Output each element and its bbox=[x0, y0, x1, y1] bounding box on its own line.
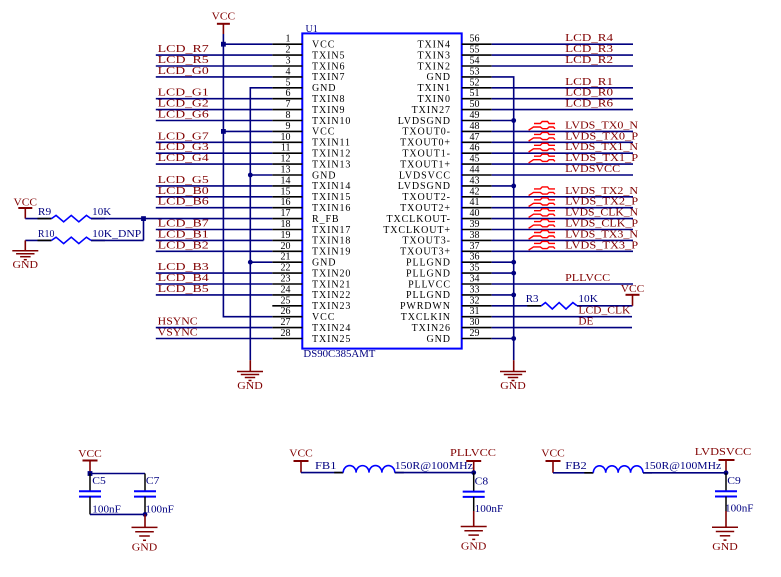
pin 21 GND bbox=[272, 252, 336, 269]
pin 46 TXOUT1- bbox=[402, 143, 491, 160]
pin 14 TXIN14 bbox=[272, 175, 351, 192]
svg-text:LVDS_TX3_P: LVDS_TX3_P bbox=[565, 239, 638, 251]
svg-text:TXIN9: TXIN9 bbox=[312, 105, 345, 116]
svg-text:TXIN5: TXIN5 bbox=[312, 50, 345, 61]
wire net LCD_G3 pin 11 bbox=[156, 152, 272, 154]
wire net LCD_R0 pin 51 bbox=[492, 98, 633, 100]
svg-text:R10: R10 bbox=[38, 228, 55, 240]
svg-text:22: 22 bbox=[281, 263, 291, 274]
svg-text:9: 9 bbox=[286, 121, 291, 132]
svg-text:TXIN22: TXIN22 bbox=[312, 290, 351, 301]
node C9 junction bbox=[724, 470, 729, 475]
svg-text:R3: R3 bbox=[526, 293, 539, 305]
node bus pin33 junction bbox=[511, 293, 516, 298]
inductor FB2 bbox=[584, 466, 652, 473]
svg-text:LCD_B2: LCD_B2 bbox=[158, 239, 209, 251]
svg-text:VCC: VCC bbox=[289, 448, 313, 460]
svg-text:PLLGND: PLLGND bbox=[406, 258, 451, 269]
pin 33 PLLGND bbox=[406, 284, 492, 301]
pin 35 PLLGND bbox=[406, 263, 492, 280]
svg-text:TXCLKOUT+: TXCLKOUT+ bbox=[383, 225, 451, 236]
svg-text:TXOUT1+: TXOUT1+ bbox=[400, 159, 451, 170]
wire net LCD_G1 pin 6 bbox=[156, 98, 272, 100]
svg-text:GND: GND bbox=[461, 540, 487, 552]
svg-text:10K_DNP: 10K_DNP bbox=[92, 228, 141, 240]
resistor R9 bbox=[38, 215, 106, 221]
wire VCC to FB2 bbox=[553, 472, 593, 474]
differential pair directive LVDS_TX1_P bbox=[529, 154, 555, 163]
svg-text:PLLGND: PLLGND bbox=[406, 268, 451, 279]
wire net LCD_R7 pin 2 bbox=[156, 54, 272, 56]
svg-text:U1: U1 bbox=[306, 23, 318, 35]
wire net LCD_B0 pin 15 bbox=[156, 196, 272, 198]
svg-text:TXIN4: TXIN4 bbox=[418, 40, 451, 51]
node bus pin35 junction bbox=[511, 271, 516, 276]
pin 16 TXIN16 bbox=[272, 197, 351, 214]
svg-text:TXIN11: TXIN11 bbox=[312, 138, 351, 149]
svg-text:GND: GND bbox=[427, 72, 451, 83]
svg-text:GND: GND bbox=[500, 380, 526, 392]
capacitor C5 bottom lead bbox=[89, 497, 91, 515]
wire pin32 to R3 bbox=[492, 305, 542, 307]
svg-text:TXIN13: TXIN13 bbox=[312, 159, 351, 170]
svg-text:33: 33 bbox=[470, 284, 480, 295]
differential pair directive LVDS_TX3_P bbox=[529, 241, 555, 250]
svg-text:15: 15 bbox=[281, 186, 291, 197]
svg-text:LCD_G6: LCD_G6 bbox=[158, 109, 210, 121]
svg-text:GND: GND bbox=[312, 258, 336, 269]
svg-text:VCC: VCC bbox=[78, 448, 102, 460]
pin 52 TXIN1 bbox=[418, 77, 492, 94]
svg-text:13: 13 bbox=[281, 165, 291, 176]
node GND bus pin21 junction bbox=[248, 260, 253, 265]
svg-text:150R@100MHz: 150R@100MHz bbox=[644, 460, 721, 472]
svg-text:GND: GND bbox=[312, 170, 336, 181]
capacitor C9 top lead bbox=[725, 473, 727, 491]
capacitor C8 bbox=[463, 492, 485, 497]
svg-text:TXIN3: TXIN3 bbox=[418, 50, 451, 61]
svg-text:25: 25 bbox=[281, 295, 291, 306]
node bus pin49 junction bbox=[511, 118, 516, 123]
wire net LCD_CLK pin 31 bbox=[492, 316, 632, 318]
power VCC at R3 bbox=[621, 283, 645, 306]
svg-text:30: 30 bbox=[470, 317, 480, 328]
svg-text:TXIN26: TXIN26 bbox=[412, 323, 451, 334]
svg-text:100nF: 100nF bbox=[725, 503, 754, 515]
wire junction down to R10 bbox=[143, 219, 145, 241]
wire pin21 GND bbox=[250, 261, 272, 263]
svg-text:21: 21 bbox=[281, 252, 291, 263]
pin 56 TXIN4 bbox=[418, 34, 492, 51]
pin 38 TXOUT3- bbox=[402, 230, 491, 247]
wire pin36 to bus bbox=[492, 261, 514, 263]
svg-text:4: 4 bbox=[286, 66, 291, 77]
svg-text:39: 39 bbox=[470, 219, 480, 230]
svg-text:54: 54 bbox=[470, 56, 480, 67]
wire net LVDS_TX0_N pin 48 bbox=[492, 130, 633, 132]
svg-text:R_FB: R_FB bbox=[312, 214, 340, 225]
power VCC at FB1 bbox=[289, 448, 313, 473]
svg-text:GND: GND bbox=[13, 259, 39, 271]
pin 6 TXIN8 bbox=[272, 88, 345, 105]
wire net LVDS_TX1_N pin 46 bbox=[492, 152, 633, 154]
svg-text:10K: 10K bbox=[578, 293, 598, 305]
resistor R10 wire left bbox=[25, 239, 51, 241]
power VCC at C5 bbox=[78, 448, 102, 474]
pin 43 LVDSGND bbox=[398, 175, 492, 192]
wire net LVDS_TX2_N pin 42 bbox=[492, 196, 633, 198]
differential pair directive LVDS_TX0_N bbox=[529, 122, 555, 131]
svg-text:GND: GND bbox=[132, 541, 158, 553]
capacitor C7 bbox=[134, 491, 156, 496]
pin 3 TXIN6 bbox=[272, 56, 345, 73]
wire net PLLVCC pin 34 bbox=[492, 283, 633, 285]
pin 48 TXOUT0- bbox=[402, 121, 491, 138]
pin 23 TXIN21 bbox=[272, 274, 351, 291]
differential pair directive LVDS_TX3_N bbox=[529, 231, 555, 240]
pin 42 TXOUT2- bbox=[402, 186, 491, 203]
pin 53 GND bbox=[427, 66, 492, 83]
wire net LCD_B2 pin 20 bbox=[156, 250, 272, 252]
svg-text:VCC: VCC bbox=[14, 197, 38, 209]
svg-text:100nF: 100nF bbox=[475, 503, 504, 515]
svg-text:14: 14 bbox=[281, 175, 291, 186]
ground at R10 bbox=[24, 240, 26, 250]
capacitor C8 top lead bbox=[473, 473, 475, 492]
svg-text:DE: DE bbox=[578, 316, 593, 328]
pin 39 TXCLKOUT+ bbox=[383, 219, 491, 236]
pin 20 TXIN19 bbox=[272, 241, 351, 258]
power PLLVCC port bbox=[450, 447, 496, 473]
svg-text:10: 10 bbox=[281, 132, 291, 143]
svg-text:TXIN8: TXIN8 bbox=[312, 94, 345, 105]
wire net LCD_B7 pin 18 bbox=[156, 229, 272, 231]
node R_FB junction bbox=[141, 216, 146, 221]
svg-text:TXIN12: TXIN12 bbox=[312, 149, 351, 160]
differential pair directive LVDS_CLK_P bbox=[529, 220, 555, 229]
svg-text:28: 28 bbox=[281, 328, 291, 339]
pin 30 TXIN26 bbox=[412, 317, 492, 334]
pin 29 GND bbox=[427, 328, 492, 345]
pin 45 TXOUT1+ bbox=[400, 154, 492, 171]
svg-text:53: 53 bbox=[470, 66, 480, 77]
wire net LCD_R2 pin 54 bbox=[492, 65, 633, 67]
svg-text:PLLVCC: PLLVCC bbox=[565, 272, 610, 284]
svg-text:44: 44 bbox=[470, 165, 480, 176]
svg-text:TXOUT0-: TXOUT0- bbox=[402, 127, 451, 138]
ground below IC right bbox=[513, 360, 515, 371]
svg-text:35: 35 bbox=[470, 263, 480, 274]
svg-text:18: 18 bbox=[281, 219, 291, 230]
svg-text:26: 26 bbox=[281, 306, 291, 317]
node VCC pin9 junction bbox=[221, 129, 226, 134]
svg-text:TXOUT3+: TXOUT3+ bbox=[400, 247, 451, 258]
node GND bus pin13 junction bbox=[248, 173, 253, 178]
ground below IC left bbox=[249, 360, 251, 371]
svg-text:10K: 10K bbox=[92, 206, 111, 218]
svg-text:LCD_G0: LCD_G0 bbox=[158, 65, 210, 77]
svg-text:52: 52 bbox=[470, 77, 480, 88]
pin 17 R_FB bbox=[272, 208, 339, 225]
pin 37 TXOUT3+ bbox=[400, 241, 492, 258]
pin 31 TXCLKIN bbox=[401, 306, 492, 323]
differential pair directive LVDS_TX2_N bbox=[529, 187, 555, 196]
svg-text:VCC: VCC bbox=[212, 11, 236, 23]
wire net LCD_B1 pin 19 bbox=[156, 239, 272, 241]
svg-text:24: 24 bbox=[281, 284, 291, 295]
pin 36 PLLGND bbox=[406, 252, 492, 269]
wire pin35 to bus bbox=[492, 272, 514, 274]
capacitor C7 bottom lead bbox=[144, 497, 146, 515]
pin 55 TXIN3 bbox=[418, 45, 492, 62]
node C8 junction bbox=[471, 470, 476, 475]
svg-text:VSYNC: VSYNC bbox=[158, 327, 198, 339]
wire R9 to pin 17 bbox=[91, 218, 272, 220]
svg-text:45: 45 bbox=[470, 154, 480, 165]
svg-text:2: 2 bbox=[286, 45, 291, 56]
node bus pin43 junction bbox=[511, 184, 516, 189]
svg-text:C7: C7 bbox=[146, 475, 160, 487]
svg-text:LCD_B6: LCD_B6 bbox=[158, 196, 210, 208]
svg-text:46: 46 bbox=[470, 143, 480, 154]
wire net LCD_B4 pin 23 bbox=[156, 283, 272, 285]
svg-text:11: 11 bbox=[281, 143, 291, 154]
pin 8 TXIN10 bbox=[272, 110, 351, 127]
wire pin5 GND to bus bbox=[250, 88, 272, 360]
svg-text:TXOUT0+: TXOUT0+ bbox=[400, 138, 451, 149]
svg-text:LVDSVCC: LVDSVCC bbox=[695, 446, 752, 458]
svg-text:TXIN24: TXIN24 bbox=[312, 323, 351, 334]
pin 2 TXIN5 bbox=[272, 45, 345, 62]
pin 25 TXIN23 bbox=[272, 295, 351, 312]
pin 34 PLLVCC bbox=[408, 274, 492, 291]
svg-text:LCD_R2: LCD_R2 bbox=[565, 54, 613, 66]
svg-text:TXCLKIN: TXCLKIN bbox=[401, 312, 451, 323]
svg-text:48: 48 bbox=[470, 121, 480, 132]
wire net LCD_G7 pin 10 bbox=[156, 141, 272, 143]
pin 4 TXIN7 bbox=[272, 66, 345, 83]
resistor R9 wire left bbox=[25, 218, 51, 220]
power VCC at R9 bbox=[14, 197, 38, 219]
pin 24 TXIN22 bbox=[272, 284, 351, 301]
wire net LCD_R6 pin 50 bbox=[492, 109, 633, 111]
wire C5 bottom rail bbox=[90, 513, 145, 515]
wire net LCD_B6 pin 16 bbox=[156, 207, 272, 209]
capacitor C9 bbox=[715, 491, 737, 496]
ground below C7 bbox=[144, 514, 146, 527]
svg-text:41: 41 bbox=[470, 197, 480, 208]
wire net LCD_G6 pin 8 bbox=[156, 120, 272, 122]
pin 18 TXIN17 bbox=[272, 219, 351, 236]
capacitor C7 top lead bbox=[144, 474, 146, 492]
svg-text:3: 3 bbox=[286, 56, 291, 67]
node VCC pin1 junction bbox=[221, 42, 226, 47]
svg-text:TXIN19: TXIN19 bbox=[312, 247, 351, 258]
svg-text:DS90C385AMT: DS90C385AMT bbox=[303, 348, 375, 360]
resistor R10 bbox=[38, 237, 106, 243]
svg-text:TXIN0: TXIN0 bbox=[418, 94, 451, 105]
node bus pin36 junction bbox=[511, 260, 516, 265]
svg-text:LVDSVCC: LVDSVCC bbox=[399, 170, 451, 181]
svg-text:36: 36 bbox=[470, 252, 480, 263]
svg-text:VCC: VCC bbox=[312, 312, 335, 323]
svg-text:37: 37 bbox=[470, 241, 480, 252]
wire net LVDS_TX0_P pin 47 bbox=[492, 141, 633, 143]
svg-text:TXOUT2+: TXOUT2+ bbox=[400, 203, 451, 214]
power LVDSVCC port bbox=[695, 446, 752, 473]
svg-text:50: 50 bbox=[470, 99, 480, 110]
svg-text:LVDSGND: LVDSGND bbox=[398, 116, 451, 127]
svg-text:40: 40 bbox=[470, 208, 480, 219]
wire pin1 VCC bbox=[223, 43, 272, 45]
svg-text:6: 6 bbox=[286, 88, 291, 99]
pin 9 VCC bbox=[272, 121, 335, 138]
ground below C9 bbox=[725, 511, 727, 527]
svg-text:27: 27 bbox=[281, 317, 291, 328]
svg-text:1: 1 bbox=[286, 34, 291, 45]
pin 15 TXIN15 bbox=[272, 186, 351, 203]
wire FB2 to LVDSVCC bbox=[643, 472, 726, 474]
svg-text:GND: GND bbox=[237, 380, 263, 392]
svg-text:TXOUT3-: TXOUT3- bbox=[402, 236, 451, 247]
svg-text:7: 7 bbox=[286, 99, 291, 110]
svg-text:TXIN20: TXIN20 bbox=[312, 268, 351, 279]
pin 54 TXIN2 bbox=[418, 56, 492, 73]
svg-text:43: 43 bbox=[470, 175, 480, 186]
wire net DE pin 30 bbox=[492, 327, 632, 329]
wire R3 to VCC bbox=[577, 305, 633, 307]
svg-text:FB1: FB1 bbox=[315, 460, 337, 472]
power VCC top bbox=[212, 11, 236, 35]
svg-text:VCC: VCC bbox=[541, 448, 565, 460]
svg-text:32: 32 bbox=[470, 295, 480, 306]
svg-text:PLLGND: PLLGND bbox=[406, 290, 451, 301]
svg-text:GND: GND bbox=[312, 83, 336, 94]
svg-text:8: 8 bbox=[286, 110, 291, 121]
svg-text:PLLVCC: PLLVCC bbox=[408, 279, 451, 290]
wire VCC vertical to pin 26 bbox=[223, 34, 272, 317]
wire net LCD_B3 pin 22 bbox=[156, 272, 272, 274]
capacitor C8 bottom lead bbox=[473, 497, 475, 511]
pin 28 TXIN25 bbox=[272, 328, 351, 345]
wire net HSYNC pin 27 bbox=[156, 327, 272, 329]
wire pin29 to bus bbox=[492, 338, 514, 340]
svg-text:C8: C8 bbox=[475, 476, 489, 488]
svg-text:PLLVCC: PLLVCC bbox=[450, 447, 496, 459]
svg-text:TXIN21: TXIN21 bbox=[312, 279, 351, 290]
svg-text:TXIN15: TXIN15 bbox=[312, 192, 351, 203]
svg-text:TXIN17: TXIN17 bbox=[312, 225, 351, 236]
svg-text:17: 17 bbox=[281, 208, 291, 219]
svg-text:LCD_B5: LCD_B5 bbox=[158, 283, 210, 295]
wire pin9 VCC bbox=[223, 130, 272, 132]
svg-text:LCD_R6: LCD_R6 bbox=[565, 98, 614, 110]
svg-text:TXCLKOUT-: TXCLKOUT- bbox=[386, 214, 450, 225]
wire net LCD_B5 pin 24 bbox=[156, 294, 272, 296]
svg-text:TXOUT1-: TXOUT1- bbox=[402, 149, 451, 160]
wire FB1 to PLLVCC bbox=[395, 472, 474, 474]
capacitor C5 bbox=[79, 491, 101, 496]
svg-text:TXIN16: TXIN16 bbox=[312, 203, 351, 214]
svg-text:FB2: FB2 bbox=[565, 460, 587, 472]
pin 26 VCC bbox=[272, 306, 335, 323]
wire net LVDS_TX3_P pin 37 bbox=[492, 250, 633, 252]
svg-text:20: 20 bbox=[281, 241, 291, 252]
node C5 top junction bbox=[88, 471, 93, 476]
svg-text:C5: C5 bbox=[92, 475, 106, 487]
pin 49 LVDSGND bbox=[398, 110, 492, 127]
wire net LVDS_TX1_P pin 45 bbox=[492, 163, 633, 165]
wire pin43 to bus bbox=[492, 185, 514, 187]
svg-text:GND: GND bbox=[712, 541, 738, 553]
pin 10 TXIN11 bbox=[272, 132, 351, 149]
wire C5 top rail bbox=[90, 473, 145, 475]
pin 40 TXCLKOUT- bbox=[386, 208, 491, 225]
svg-text:TXIN10: TXIN10 bbox=[312, 116, 351, 127]
differential pair directive LVDS_CLK_N bbox=[529, 209, 555, 218]
wire pin33 to bus bbox=[492, 294, 514, 296]
wire net VSYNC pin 28 bbox=[156, 338, 272, 340]
wire net LCD_R3 pin 55 bbox=[492, 54, 633, 56]
wire net LCD_R5 pin 3 bbox=[156, 65, 272, 67]
svg-text:5: 5 bbox=[286, 77, 291, 88]
svg-text:PWRDWN: PWRDWN bbox=[400, 301, 451, 312]
svg-text:47: 47 bbox=[470, 132, 480, 143]
svg-text:C9: C9 bbox=[727, 475, 741, 487]
power VCC at FB2 bbox=[541, 448, 565, 473]
pin 27 TXIN24 bbox=[272, 317, 351, 334]
pin 7 TXIN9 bbox=[272, 99, 345, 116]
svg-text:38: 38 bbox=[470, 230, 480, 241]
svg-text:49: 49 bbox=[470, 110, 480, 121]
svg-text:TXOUT2-: TXOUT2- bbox=[402, 192, 451, 203]
svg-text:VCC: VCC bbox=[312, 127, 335, 138]
wire net LCD_G5 pin 14 bbox=[156, 185, 272, 187]
pin 50 TXIN27 bbox=[412, 99, 492, 116]
svg-text:23: 23 bbox=[281, 274, 291, 285]
capacitor C5 top lead bbox=[89, 474, 91, 492]
svg-text:19: 19 bbox=[281, 230, 291, 241]
IC U1 DS90C385AMT outline bbox=[302, 33, 461, 348]
pin 12 TXIN13 bbox=[272, 154, 351, 171]
pin 47 TXOUT0+ bbox=[400, 132, 492, 149]
wire net LVDS_CLK_P pin 39 bbox=[492, 229, 633, 231]
pin 22 TXIN20 bbox=[272, 263, 351, 280]
svg-text:TXIN1: TXIN1 bbox=[418, 83, 451, 94]
pin 41 TXOUT2+ bbox=[400, 197, 492, 214]
svg-text:LVDSVCC: LVDSVCC bbox=[565, 163, 620, 175]
svg-text:16: 16 bbox=[281, 197, 291, 208]
svg-text:R9: R9 bbox=[38, 206, 52, 218]
ground below C8 bbox=[473, 511, 475, 527]
svg-text:TXIN25: TXIN25 bbox=[312, 334, 351, 345]
svg-text:42: 42 bbox=[470, 186, 480, 197]
svg-text:12: 12 bbox=[281, 154, 291, 165]
svg-text:GND: GND bbox=[427, 334, 451, 345]
wire R10 right bbox=[91, 239, 144, 241]
differential pair directive LVDS_TX0_P bbox=[529, 132, 555, 141]
node C7 bottom junction bbox=[143, 512, 148, 517]
svg-text:56: 56 bbox=[470, 34, 480, 45]
wire net LCD_G4 pin 12 bbox=[156, 163, 272, 165]
wire net LVDS_TX2_P pin 41 bbox=[492, 207, 633, 209]
differential pair directive LVDS_TX1_N bbox=[529, 143, 555, 152]
pin 1 VCC bbox=[272, 34, 335, 51]
svg-text:100nF: 100nF bbox=[145, 504, 174, 516]
svg-text:TXIN6: TXIN6 bbox=[312, 61, 345, 72]
wire net LVDSVCC pin 44 bbox=[492, 174, 633, 176]
pin 51 TXIN0 bbox=[418, 88, 492, 105]
